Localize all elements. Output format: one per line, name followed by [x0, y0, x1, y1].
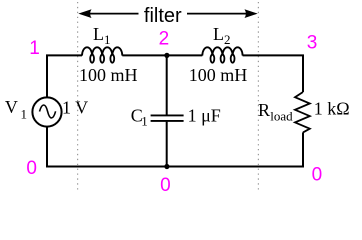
- svg-text:1 V: 1 V: [62, 98, 88, 118]
- inductor L1: [82, 47, 122, 62]
- junction node 2: [164, 53, 169, 58]
- svg-text:1: 1: [21, 107, 28, 122]
- wire bottom left: [46, 127, 167, 167]
- svg-text:1 μF: 1 μF: [188, 106, 221, 126]
- svg-text:R: R: [258, 100, 270, 120]
- dotted boundary line right: [257, 2, 259, 190]
- capacitor C1 plates: [151, 114, 184, 116]
- svg-text:0: 0: [312, 165, 323, 186]
- svg-text:2: 2: [159, 29, 170, 50]
- voltage source V1 circle: [32, 97, 61, 126]
- svg-text:1: 1: [29, 38, 40, 59]
- wire L2 to node 3 corner: [243, 55, 303, 92]
- inductor L2: [202, 47, 242, 62]
- svg-text:V: V: [5, 97, 18, 117]
- resistor Rload: [295, 92, 310, 132]
- svg-text:1: 1: [104, 32, 111, 47]
- svg-text:L: L: [213, 24, 224, 44]
- svg-text:3: 3: [307, 32, 318, 53]
- svg-text:2: 2: [224, 32, 231, 47]
- junction node 0: [164, 164, 169, 169]
- dotted boundary line left: [77, 2, 79, 190]
- svg-text:100 mH: 100 mH: [189, 65, 248, 85]
- right arrow: [187, 9, 258, 18]
- svg-text:1: 1: [141, 113, 148, 128]
- capacitor wire top: [166, 55, 168, 114]
- sine wave inside V1: [40, 105, 56, 118]
- wire resistor to bottom right corner: [167, 132, 303, 166]
- svg-text:load: load: [270, 109, 293, 124]
- wire top-left: node1 to L1: [47, 55, 82, 97]
- svg-text:filter: filter: [144, 5, 182, 27]
- svg-text:1 kΩ: 1 kΩ: [314, 99, 350, 119]
- svg-text:L: L: [93, 24, 104, 44]
- svg-text:0: 0: [160, 175, 171, 196]
- svg-text:0: 0: [26, 158, 37, 179]
- left arrow: [78, 9, 138, 18]
- capacitor wire bottom: [166, 122, 168, 167]
- svg-text:100 mH: 100 mH: [79, 65, 138, 85]
- wire L1 to L2 with node 2: [122, 54, 202, 56]
